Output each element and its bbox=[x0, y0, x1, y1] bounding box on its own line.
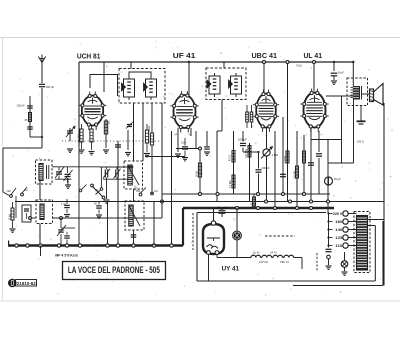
svg-text:50 kΩ: 50 kΩ bbox=[10, 214, 12, 220]
svg-text:UF 41: UF 41 bbox=[173, 51, 196, 60]
svg-text:200 pF: 200 pF bbox=[262, 166, 270, 170]
svg-text:LA VOCE DEL PADRONE - 505: LA VOCE DEL PADRONE - 505 bbox=[68, 265, 160, 275]
svg-text:1 nF: 1 nF bbox=[61, 203, 66, 206]
svg-text:OM: OM bbox=[7, 189, 11, 193]
svg-text:UF 41: UF 41 bbox=[270, 252, 277, 255]
svg-text:OC: OC bbox=[154, 189, 158, 193]
svg-text:0,5 MΩ: 0,5 MΩ bbox=[285, 156, 287, 163]
svg-text:UCH 81: UCH 81 bbox=[77, 52, 101, 61]
svg-text:UBC 41: UBC 41 bbox=[252, 51, 278, 60]
svg-text:100 pF: 100 pF bbox=[238, 138, 247, 142]
svg-text:↓: ↓ bbox=[258, 134, 259, 137]
svg-text:↓: ↓ bbox=[230, 226, 231, 229]
svg-text:↓₂: ↓₂ bbox=[320, 133, 322, 136]
svg-text:3,3 MΩ: 3,3 MΩ bbox=[230, 180, 232, 188]
svg-text:0,05: 0,05 bbox=[181, 142, 186, 145]
svg-text:UL 41: UL 41 bbox=[304, 51, 323, 60]
svg-text:220 V: 220 V bbox=[333, 212, 343, 216]
svg-text:30 kΩ: 30 kΩ bbox=[148, 125, 151, 132]
svg-text:3 kΩ: 3 kΩ bbox=[296, 64, 302, 68]
svg-text:UL 41: UL 41 bbox=[253, 252, 260, 255]
svg-text:32 kΩ: 32 kΩ bbox=[196, 170, 199, 177]
svg-text:160: 160 bbox=[335, 220, 342, 224]
svg-text:OC: OC bbox=[95, 188, 99, 192]
svg-text:0,12 MΩ: 0,12 MΩ bbox=[294, 170, 296, 179]
svg-text:↓: ↓ bbox=[265, 134, 266, 137]
svg-text:100 pF: 100 pF bbox=[17, 104, 25, 108]
svg-text:100 pF: 100 pF bbox=[46, 85, 55, 89]
svg-text:↓₁: ↓₁ bbox=[305, 133, 307, 136]
svg-text:125: 125 bbox=[335, 236, 342, 240]
svg-text:140: 140 bbox=[335, 228, 342, 232]
svg-text:↓a: ↓a bbox=[174, 132, 177, 136]
svg-text:↓g: ↓g bbox=[188, 132, 191, 136]
svg-text:110: 110 bbox=[335, 244, 342, 248]
svg-text:UBC 41: UBC 41 bbox=[280, 261, 289, 264]
svg-text:150 Ω: 150 Ω bbox=[357, 141, 364, 144]
svg-text:0,47 MΩ: 0,47 MΩ bbox=[246, 149, 248, 158]
svg-text:0,1 MΩ: 0,1 MΩ bbox=[78, 134, 81, 142]
svg-text:40 μF: 40 μF bbox=[334, 177, 341, 181]
svg-text:UY 41: UY 41 bbox=[222, 265, 240, 272]
svg-text:8 μF: 8 μF bbox=[338, 71, 344, 75]
svg-text:470 Ω: 470 Ω bbox=[230, 155, 232, 161]
svg-text:21910-62: 21910-62 bbox=[17, 281, 37, 286]
svg-text:1 MΩ: 1 MΩ bbox=[272, 153, 279, 157]
svg-text:MF 4 5 6 Kc/s: MF 4 5 6 Kc/s bbox=[55, 253, 78, 257]
svg-text:OC: OC bbox=[24, 188, 28, 192]
svg-text:UCH 81: UCH 81 bbox=[259, 261, 269, 264]
svg-text:OM: OM bbox=[136, 189, 140, 193]
